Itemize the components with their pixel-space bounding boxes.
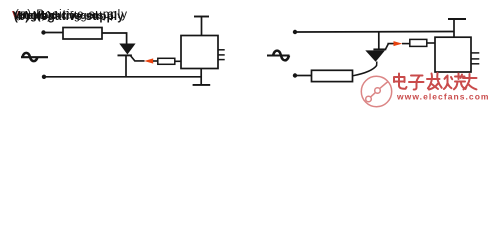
U1 top terminal bar	[194, 16, 209, 18]
子	[409, 76, 424, 90]
wire arrow to R4	[402, 43, 410, 45]
resistor R3	[312, 70, 353, 81]
wire bottom rail	[46, 76, 202, 78]
watermark text 电子发烧友	[394, 73, 477, 90]
thyristor SCR1 triangle	[119, 44, 135, 55]
wire U1 bottom stem	[200, 69, 202, 85]
svg-text:Vreg(b)d: Vreg(b)d	[13, 10, 58, 22]
caption overlapped text block	[12, 9, 128, 24]
wire R4 to U2	[427, 42, 435, 44]
AC source left	[21, 53, 48, 61]
SCR1 cathode bar	[118, 54, 132, 56]
U1 top terminal stem	[201, 17, 203, 36]
resistor R4	[410, 39, 427, 46]
wire R3 to SCR2 (curved)	[353, 62, 377, 76]
U1 right pins	[218, 49, 225, 51]
友	[463, 74, 477, 89]
wire SCR2 gate	[386, 44, 394, 50]
wire R2 to U1	[175, 60, 181, 62]
SCR2 bar	[373, 48, 386, 50]
wire arrow to R2	[153, 60, 158, 62]
watermark logo circle	[361, 76, 391, 106]
wire SCR1 cathode down	[125, 56, 127, 77]
AC source right	[267, 51, 290, 61]
U2 right pins	[471, 52, 479, 54]
烧	[444, 74, 466, 90]
wire top rail right	[297, 31, 455, 34]
wire top left	[45, 32, 63, 34]
thyristor SCR2 triangle	[365, 50, 385, 61]
U2 top terminal stem	[453, 19, 455, 37]
发	[427, 73, 442, 90]
node bottom-left terminal	[42, 75, 46, 79]
svg-text:www.elecfans.com: www.elecfans.com	[396, 91, 490, 101]
arrow left-pointing	[144, 58, 153, 63]
wire to R3	[297, 75, 312, 77]
wire SCR2 anode from top rail	[378, 32, 380, 49]
node top-left terminal	[41, 30, 45, 34]
wire SCR1 gate	[131, 56, 145, 61]
IC U1 box	[181, 36, 218, 69]
ground bar	[193, 84, 211, 86]
node bottom-right terminal	[293, 73, 297, 77]
IC U2 box	[435, 37, 471, 72]
resistor R2	[158, 58, 175, 64]
arrow right-pointing	[394, 41, 403, 46]
U2 top terminal bar	[448, 18, 466, 20]
resistor R1	[63, 28, 102, 40]
wire resistor to SCR corner	[102, 33, 127, 44]
电	[394, 74, 407, 89]
node top-right terminal	[293, 30, 297, 34]
